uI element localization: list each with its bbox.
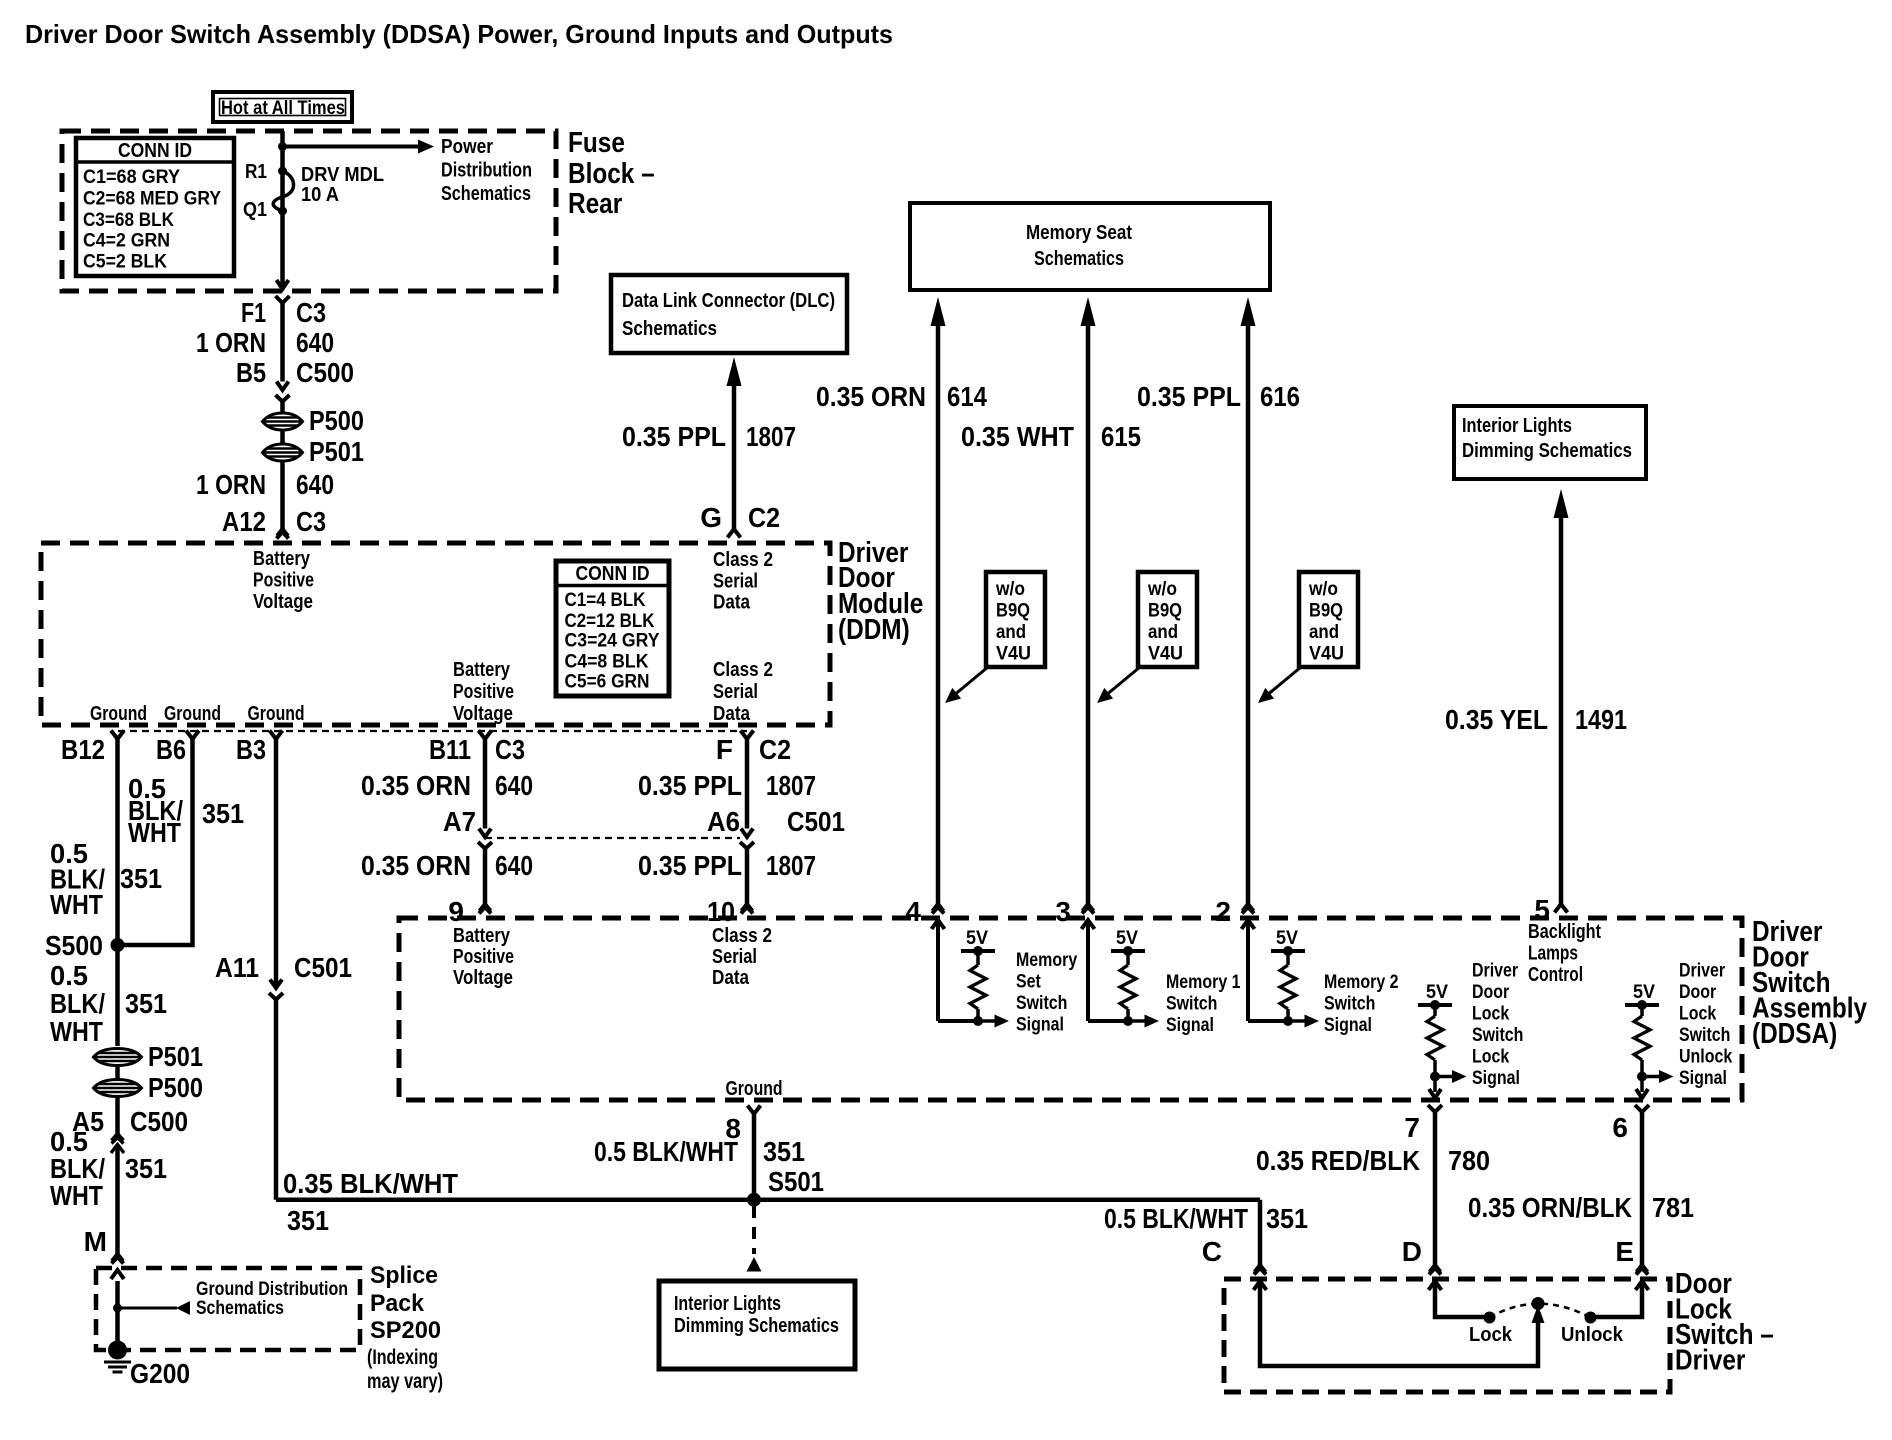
wire segment to grommet bbox=[280, 402, 285, 414]
svg-text:1807: 1807 bbox=[766, 850, 816, 881]
svg-text:351: 351 bbox=[125, 988, 167, 1019]
junction node resistor bottom bbox=[1430, 1072, 1440, 1082]
svg-text:C3=68 BLK: C3=68 BLK bbox=[83, 210, 174, 231]
svg-text:Battery: Battery bbox=[453, 659, 511, 681]
reference arrow ground distribution schematics bbox=[118, 1307, 178, 1310]
wire between lower grommets bbox=[115, 1065, 120, 1079]
svg-text:Splice: Splice bbox=[370, 1262, 438, 1289]
svg-text:0.35 ORN: 0.35 ORN bbox=[816, 381, 926, 412]
connector exit G C2 from DDM top bbox=[728, 529, 741, 538]
connector exit pin 7 DDSA bbox=[1429, 1089, 1441, 1098]
inline connector C501 pin A11 bbox=[270, 980, 282, 989]
svg-text:Schematics: Schematics bbox=[622, 318, 717, 340]
fuse DRV MDL 10A terminal R1 bbox=[278, 167, 287, 176]
label box Hot at All Times bbox=[213, 92, 352, 122]
svg-text:Distribution: Distribution bbox=[441, 160, 532, 182]
svg-text:1491: 1491 bbox=[1575, 704, 1627, 735]
svg-text:S501: S501 bbox=[768, 1166, 824, 1197]
svg-text:P500: P500 bbox=[148, 1072, 203, 1103]
wire 640 ORN lower segment bbox=[280, 461, 285, 529]
wire 351 BLK/WHT from B12 bbox=[115, 739, 120, 945]
connector entry A12 C3 into DDM bbox=[277, 529, 288, 536]
svg-text:Lock: Lock bbox=[1472, 1004, 1510, 1025]
signal arrow bbox=[978, 1019, 996, 1023]
svg-text:4: 4 bbox=[905, 896, 921, 927]
connector id table CONN ID fuse block bbox=[76, 138, 234, 276]
svg-text:5V: 5V bbox=[1633, 982, 1655, 1003]
svg-text:F1: F1 bbox=[241, 297, 266, 328]
junction node power tap bbox=[278, 142, 287, 151]
connector pass-through pin D door lock switch bbox=[1430, 1265, 1441, 1272]
grommet P500 lower bbox=[94, 1080, 142, 1097]
resistor pull-up at x=1642 bbox=[1634, 1016, 1650, 1060]
svg-text:Driver: Driver bbox=[1675, 1345, 1745, 1377]
svg-text:10 A: 10 A bbox=[301, 184, 339, 206]
svg-text:Memory: Memory bbox=[1016, 950, 1078, 971]
connector exit pin F bbox=[741, 731, 754, 740]
svg-text:3: 3 bbox=[1055, 896, 1071, 927]
svg-text:B9Q: B9Q bbox=[1148, 601, 1182, 622]
svg-text:and: and bbox=[1309, 622, 1339, 643]
fuse element DRV MDL 10 A bbox=[273, 171, 293, 211]
svg-text:0.35 PPL: 0.35 PPL bbox=[1137, 381, 1241, 412]
wire 640 ORN to DDSA pin 9 bbox=[483, 849, 488, 905]
svg-text:Signal: Signal bbox=[1324, 1015, 1372, 1036]
wire 351 BLK/WHT from B6 bbox=[124, 739, 193, 945]
svg-text:Driver: Driver bbox=[1472, 961, 1519, 982]
svg-text:C2: C2 bbox=[759, 734, 791, 765]
svg-text:Door: Door bbox=[1472, 982, 1510, 1003]
svg-text:Unlock: Unlock bbox=[1679, 1047, 1733, 1068]
svg-text:BLK/: BLK/ bbox=[50, 988, 105, 1019]
grommet P501 lower bbox=[94, 1049, 142, 1066]
svg-text:C2=68 MED GRY: C2=68 MED GRY bbox=[83, 189, 221, 210]
svg-text:Driver: Driver bbox=[1679, 961, 1726, 982]
svg-text:Serial: Serial bbox=[712, 946, 757, 968]
wire 351 BLK/WHT from A11 to ground bus bbox=[274, 1000, 279, 1200]
wire 781 ORN/BLK from pin 6 bbox=[1640, 1112, 1645, 1265]
junction node resistor bottom bbox=[1637, 1072, 1647, 1082]
svg-text:Positive: Positive bbox=[453, 946, 514, 968]
svg-text:0.35 ORN: 0.35 ORN bbox=[361, 770, 471, 801]
fuse block rear dashed box bbox=[62, 131, 556, 291]
svg-text:CONN ID: CONN ID bbox=[118, 140, 192, 162]
svg-text:E: E bbox=[1615, 1236, 1634, 1267]
svg-text:351: 351 bbox=[287, 1205, 329, 1236]
svg-text:351: 351 bbox=[125, 1153, 167, 1184]
svg-text:(DDSA): (DDSA) bbox=[1752, 1018, 1837, 1050]
ground G200 bbox=[108, 1341, 127, 1360]
option box w/o B9Q and V4U 1 bbox=[986, 572, 1045, 667]
wire common pole from pin C bbox=[1260, 1281, 1538, 1366]
grommet P500 bbox=[263, 413, 303, 430]
wire pin stem to resistor bbox=[936, 920, 940, 1021]
svg-text:640: 640 bbox=[296, 327, 334, 358]
svg-text:Interior Lights: Interior Lights bbox=[1462, 415, 1572, 437]
svg-text:Serial: Serial bbox=[713, 681, 758, 703]
switch contact unlock bbox=[1585, 1312, 1597, 1324]
reference box Interior Lights Dimming Schematics top bbox=[1454, 406, 1646, 479]
svg-text:Signal: Signal bbox=[1679, 1068, 1727, 1089]
svg-text:10: 10 bbox=[707, 896, 735, 927]
connector exit pin B12 bbox=[111, 731, 124, 740]
svg-text:C4=8 BLK: C4=8 BLK bbox=[565, 652, 649, 673]
svg-text:C3: C3 bbox=[296, 297, 326, 328]
svg-text:WHT: WHT bbox=[50, 1180, 103, 1211]
svg-text:616: 616 bbox=[1260, 381, 1300, 412]
svg-text:Schematics: Schematics bbox=[441, 183, 531, 205]
wire 640 ORN from pin B11 bbox=[483, 739, 488, 829]
svg-text:Memory Seat: Memory Seat bbox=[1026, 222, 1132, 244]
svg-text:G: G bbox=[700, 502, 722, 533]
svg-text:C3: C3 bbox=[296, 506, 326, 537]
resistor pull-up at x=1128 bbox=[1120, 965, 1136, 1009]
option arrow 2 bbox=[1105, 667, 1140, 696]
svg-text:M: M bbox=[84, 1226, 107, 1257]
svg-text:5V: 5V bbox=[1116, 928, 1138, 949]
svg-text:5V: 5V bbox=[1426, 982, 1448, 1003]
svg-text:Ground Distribution: Ground Distribution bbox=[196, 1279, 348, 1300]
svg-text:WHT: WHT bbox=[50, 889, 103, 920]
signal arrow bbox=[1642, 1075, 1659, 1079]
option box w/o B9Q and V4U 2 bbox=[1138, 572, 1197, 667]
svg-text:Fuse: Fuse bbox=[568, 127, 625, 159]
junction node ground distribution tap bbox=[113, 1304, 122, 1313]
svg-text:781: 781 bbox=[1652, 1192, 1694, 1223]
svg-text:(DDM): (DDM) bbox=[838, 614, 910, 646]
svg-text:Lock: Lock bbox=[1472, 1047, 1510, 1068]
svg-text:Ground: Ground bbox=[164, 703, 221, 725]
svg-text:w/o: w/o bbox=[1147, 579, 1177, 600]
svg-text:R1: R1 bbox=[245, 161, 267, 183]
svg-text:Rear: Rear bbox=[568, 188, 622, 220]
svg-text:w/o: w/o bbox=[1308, 579, 1338, 600]
svg-text:Dimming Schematics: Dimming Schematics bbox=[674, 1315, 839, 1337]
svg-text:(Indexing: (Indexing bbox=[367, 1346, 438, 1369]
driver door switch assembly dashed box DDSA bbox=[399, 918, 1742, 1100]
svg-text:Battery: Battery bbox=[453, 925, 511, 947]
connector pass-through pin 3 DDSA bbox=[1083, 904, 1094, 911]
svg-text:Block –: Block – bbox=[568, 158, 655, 190]
wire 351 BLK/WHT below S500 bbox=[115, 945, 120, 1046]
svg-text:Dimming Schematics: Dimming Schematics bbox=[1462, 440, 1632, 462]
svg-text:C2: C2 bbox=[748, 502, 780, 533]
splice pack SP200 dashed box bbox=[96, 1268, 360, 1350]
wire 351 BLK/WHT from pin 8 bbox=[752, 1114, 757, 1200]
door lock switch dashed box bbox=[1224, 1279, 1670, 1392]
svg-text:640: 640 bbox=[296, 469, 334, 500]
svg-text:Class 2: Class 2 bbox=[713, 659, 773, 681]
junction node resistor bottom bbox=[1123, 1016, 1133, 1026]
connector id table CONN ID DDM bbox=[556, 561, 669, 696]
connector exit pin 8 DDSA bbox=[748, 1106, 761, 1115]
svg-text:B9Q: B9Q bbox=[1309, 601, 1343, 622]
reference box Data Link Connector DLC Schematics bbox=[611, 275, 847, 353]
svg-text:Lamps: Lamps bbox=[1528, 943, 1578, 965]
svg-text:1807: 1807 bbox=[766, 770, 816, 801]
svg-text:V4U: V4U bbox=[1148, 644, 1183, 665]
svg-text:C501: C501 bbox=[787, 806, 845, 837]
svg-text:0.5: 0.5 bbox=[50, 960, 88, 991]
svg-text:2: 2 bbox=[1215, 896, 1231, 927]
inline connector C500 pin B5 bbox=[277, 382, 289, 391]
connector pass-through pin 4 DDSA bbox=[933, 904, 944, 911]
connector exit pin B6 bbox=[186, 731, 199, 740]
svg-text:Q1: Q1 bbox=[243, 199, 267, 221]
wire 351 BLK/WHT to splice pack bbox=[115, 1145, 120, 1255]
svg-text:Serial: Serial bbox=[713, 571, 758, 593]
svg-text:0.35 ORN: 0.35 ORN bbox=[361, 850, 471, 881]
switch pivot node bbox=[1532, 1297, 1545, 1310]
svg-text:Battery: Battery bbox=[253, 548, 311, 570]
svg-text:and: and bbox=[1148, 622, 1178, 643]
svg-text:351: 351 bbox=[1266, 1203, 1308, 1234]
resistor pull-up at x=1435 bbox=[1427, 1016, 1443, 1060]
svg-text:WHT: WHT bbox=[128, 817, 181, 848]
svg-text:Memory 2: Memory 2 bbox=[1324, 972, 1399, 993]
grommet P501 bbox=[263, 444, 303, 461]
svg-text:C5=2 BLK: C5=2 BLK bbox=[83, 252, 167, 273]
wire 1807 PPL to DDSA pin 10 bbox=[745, 849, 750, 905]
svg-text:0.35 RED/BLK: 0.35 RED/BLK bbox=[1256, 1145, 1420, 1176]
svg-text:C500: C500 bbox=[130, 1106, 188, 1137]
svg-text:WHT: WHT bbox=[50, 1016, 103, 1047]
svg-text:Data: Data bbox=[713, 703, 751, 725]
connector exit pin 6 DDSA bbox=[1636, 1089, 1648, 1098]
resistor pull-up at x=1288 bbox=[1280, 965, 1296, 1009]
connector C3 pin F1 crossing at fuse box exit bbox=[277, 280, 289, 289]
svg-text:1807: 1807 bbox=[746, 421, 796, 452]
connector exit pin 5 DDSA bbox=[1555, 904, 1568, 913]
wire unlock contact from pin E bbox=[1596, 1281, 1642, 1317]
svg-text:B6: B6 bbox=[156, 734, 186, 765]
resistor pull-up at x=978 bbox=[970, 965, 986, 1009]
wire 616 PPL memory 2 switch signal bbox=[1241, 297, 1256, 326]
inline connector C501 pin A6 bbox=[741, 829, 753, 838]
svg-text:C1=4 BLK: C1=4 BLK bbox=[565, 590, 646, 611]
connector entry pin 9 DDSA bbox=[480, 904, 491, 911]
svg-text:Switch: Switch bbox=[1324, 994, 1375, 1015]
option box w/o B9Q and V4U 3 bbox=[1299, 572, 1358, 667]
fuse DRV MDL 10A terminal Q1 bbox=[278, 207, 287, 216]
svg-text:351: 351 bbox=[763, 1136, 805, 1167]
switch wiper travel dashed arc bbox=[1490, 1304, 1591, 1318]
svg-text:B3: B3 bbox=[236, 734, 266, 765]
svg-text:5V: 5V bbox=[966, 928, 988, 949]
svg-text:B9Q: B9Q bbox=[996, 601, 1030, 622]
svg-text:0.5 BLK/WHT: 0.5 BLK/WHT bbox=[594, 1136, 738, 1167]
wire to power distribution arrow bbox=[283, 145, 420, 149]
connector plane dashed line C501 bbox=[485, 837, 740, 839]
svg-text:A12: A12 bbox=[222, 506, 266, 537]
driver door module dashed box DDM bbox=[41, 543, 830, 725]
svg-text:0.35 PPL: 0.35 PPL bbox=[638, 770, 742, 801]
svg-text:B11: B11 bbox=[429, 734, 471, 765]
wire 1807 PPL class 2 serial data up to DLC bbox=[727, 357, 742, 386]
switch contact lock bbox=[1484, 1312, 1496, 1324]
svg-text:Ground: Ground bbox=[726, 1078, 783, 1100]
connector pass-through pin C door lock switch bbox=[1255, 1265, 1266, 1272]
reference box Memory Seat Schematics bbox=[910, 203, 1270, 290]
svg-text:Data: Data bbox=[713, 592, 751, 614]
splice S500 bbox=[111, 938, 125, 952]
svg-text:Switch: Switch bbox=[1679, 1025, 1730, 1046]
svg-text:DRV MDL: DRV MDL bbox=[301, 164, 384, 186]
svg-text:C2=12 BLK: C2=12 BLK bbox=[565, 611, 655, 632]
svg-text:A11: A11 bbox=[215, 952, 259, 983]
connector entry M into splice pack bbox=[112, 1254, 123, 1261]
svg-text:Voltage: Voltage bbox=[453, 703, 513, 725]
svg-text:P501: P501 bbox=[309, 436, 364, 467]
svg-text:0.35 PPL: 0.35 PPL bbox=[622, 421, 726, 452]
svg-text:Pack: Pack bbox=[370, 1290, 425, 1317]
svg-text:Ground: Ground bbox=[90, 703, 147, 725]
connector pass-through pin E door lock switch bbox=[1637, 1265, 1648, 1272]
wire hot feed vertical bbox=[280, 131, 285, 289]
svg-text:C4=2 GRN: C4=2 GRN bbox=[83, 231, 170, 252]
svg-text:Positive: Positive bbox=[453, 681, 514, 703]
connector pass-through pin 2 DDSA bbox=[1243, 904, 1254, 911]
svg-text:and: and bbox=[996, 622, 1026, 643]
reference box Interior Lights Dimming Schematics bottom bbox=[659, 1281, 855, 1369]
svg-text:Driver Door Switch Assembly (D: Driver Door Switch Assembly (DDSA) Power… bbox=[25, 19, 893, 49]
junction node resistor bottom bbox=[1283, 1016, 1293, 1026]
svg-text:C: C bbox=[1202, 1236, 1222, 1267]
svg-text:351: 351 bbox=[202, 798, 244, 829]
svg-text:Schematics: Schematics bbox=[1034, 248, 1124, 270]
svg-text:1 ORN: 1 ORN bbox=[196, 327, 266, 358]
svg-text:614: 614 bbox=[947, 381, 987, 412]
wire 780 RED/BLK from pin 7 bbox=[1433, 1112, 1438, 1265]
svg-text:0.35 YEL: 0.35 YEL bbox=[1445, 704, 1548, 735]
svg-text:G200: G200 bbox=[130, 1358, 190, 1389]
svg-text:640: 640 bbox=[495, 770, 533, 801]
svg-text:0.35 ORN/BLK: 0.35 ORN/BLK bbox=[1468, 1192, 1632, 1223]
connector exit pin B11 bbox=[479, 731, 492, 740]
svg-text:0.35 PPL: 0.35 PPL bbox=[638, 850, 742, 881]
svg-text:Data Link Connector (DLC): Data Link Connector (DLC) bbox=[622, 290, 835, 312]
svg-text:V4U: V4U bbox=[996, 644, 1031, 665]
dashed reference wire to interior lights dimming bbox=[752, 1206, 756, 1254]
signal arrow bbox=[1128, 1019, 1146, 1023]
svg-text:Switch: Switch bbox=[1472, 1025, 1523, 1046]
wire 614 ORN memory set switch signal bbox=[931, 297, 946, 326]
wire lock contact from pin D bbox=[1435, 1281, 1484, 1317]
svg-text:Control: Control bbox=[1528, 964, 1583, 986]
svg-text:0.35 WHT: 0.35 WHT bbox=[961, 421, 1074, 452]
svg-text:Power: Power bbox=[441, 136, 493, 158]
svg-text:Unlock: Unlock bbox=[1561, 1324, 1624, 1346]
svg-text:Memory 1: Memory 1 bbox=[1166, 972, 1241, 993]
svg-text:0.35 BLK/WHT: 0.35 BLK/WHT bbox=[283, 1168, 458, 1199]
svg-text:Schematics: Schematics bbox=[196, 1298, 284, 1319]
svg-text:P500: P500 bbox=[309, 405, 364, 436]
svg-text:Signal: Signal bbox=[1472, 1068, 1520, 1089]
svg-text:B12: B12 bbox=[61, 734, 105, 765]
svg-text:Door: Door bbox=[1679, 982, 1717, 1003]
wire pin stem to resistor bbox=[1086, 920, 1090, 1021]
wire pin stem to resistor bbox=[1246, 920, 1250, 1021]
wire inside splice pack bbox=[115, 1281, 120, 1344]
svg-text:C501: C501 bbox=[294, 952, 352, 983]
svg-text:9: 9 bbox=[448, 896, 464, 927]
svg-text:Voltage: Voltage bbox=[453, 967, 513, 989]
svg-text:Hot at All Times: Hot at All Times bbox=[221, 97, 345, 119]
inline connector C501 pin A7 bbox=[479, 829, 491, 838]
wire 351 BLK/WHT down to door lock switch pin C bbox=[1258, 1200, 1263, 1265]
svg-text:Interior Lights: Interior Lights bbox=[674, 1293, 781, 1315]
svg-text:CONN ID: CONN ID bbox=[576, 563, 650, 585]
connector entry pin 10 DDSA bbox=[742, 904, 753, 911]
inline connector C500 pin A5 bbox=[112, 1134, 124, 1141]
connector exit pin B3 bbox=[270, 731, 283, 740]
svg-text:Class 2: Class 2 bbox=[713, 549, 773, 571]
wire 351 BLK/WHT from B3 to A11 bbox=[274, 739, 279, 988]
svg-text:0.5 BLK/WHT: 0.5 BLK/WHT bbox=[1104, 1203, 1248, 1234]
svg-text:Data: Data bbox=[712, 967, 750, 989]
wire segment between grommets bbox=[280, 430, 285, 444]
svg-text:640: 640 bbox=[495, 850, 533, 881]
wire 1807 PPL from pin F bbox=[745, 739, 750, 829]
svg-text:Switch: Switch bbox=[1016, 993, 1067, 1014]
wire 640 ORN segment bbox=[280, 303, 285, 382]
wire 615 WHT memory 1 switch signal bbox=[1081, 297, 1096, 326]
svg-text:D: D bbox=[1402, 1236, 1422, 1267]
svg-text:6: 6 bbox=[1612, 1112, 1628, 1143]
svg-text:5: 5 bbox=[1534, 894, 1550, 925]
svg-text:V4U: V4U bbox=[1309, 644, 1344, 665]
svg-text:S500: S500 bbox=[45, 930, 103, 961]
svg-text:C1=68 GRY: C1=68 GRY bbox=[83, 167, 180, 188]
svg-text:Switch: Switch bbox=[1166, 994, 1217, 1015]
signal arrow bbox=[1435, 1075, 1452, 1079]
svg-text:F: F bbox=[716, 734, 733, 765]
signal arrow bbox=[1288, 1019, 1306, 1023]
svg-text:SP200: SP200 bbox=[370, 1317, 441, 1344]
svg-text:Signal: Signal bbox=[1166, 1015, 1214, 1036]
svg-text:Ground: Ground bbox=[248, 703, 305, 725]
svg-text:Lock: Lock bbox=[1679, 1004, 1717, 1025]
svg-text:B5: B5 bbox=[236, 357, 266, 388]
svg-text:C3: C3 bbox=[495, 734, 525, 765]
svg-text:615: 615 bbox=[1101, 421, 1141, 452]
svg-text:Signal: Signal bbox=[1016, 1015, 1064, 1036]
svg-text:Lock: Lock bbox=[1469, 1324, 1513, 1346]
connector plane dashed line C500 C501 below DDM bbox=[118, 730, 747, 732]
svg-text:A6: A6 bbox=[707, 806, 740, 837]
svg-text:Set: Set bbox=[1016, 972, 1041, 993]
option arrow 3 bbox=[1266, 667, 1301, 696]
svg-text:C5=6 GRN: C5=6 GRN bbox=[565, 672, 650, 693]
svg-text:5V: 5V bbox=[1276, 928, 1298, 949]
svg-text:may vary): may vary) bbox=[367, 1370, 443, 1393]
svg-text:Voltage: Voltage bbox=[253, 591, 313, 613]
switch common pole arrow bbox=[1532, 1305, 1545, 1323]
junction node resistor bottom bbox=[973, 1016, 983, 1026]
svg-text:780: 780 bbox=[1448, 1145, 1490, 1176]
splice S501 bbox=[747, 1193, 761, 1207]
wire 1491 YEL backlight lamps control bbox=[1554, 489, 1569, 518]
wire to A5 C500 bbox=[115, 1096, 120, 1134]
svg-text:w/o: w/o bbox=[995, 579, 1025, 600]
svg-text:C3=24 GRY: C3=24 GRY bbox=[565, 631, 660, 652]
option arrow 1 bbox=[953, 667, 988, 696]
svg-text:351: 351 bbox=[120, 863, 162, 894]
svg-text:7: 7 bbox=[1404, 1112, 1420, 1143]
svg-text:Class 2: Class 2 bbox=[712, 925, 772, 947]
svg-text:P501: P501 bbox=[148, 1041, 203, 1072]
svg-text:Positive: Positive bbox=[253, 570, 314, 592]
